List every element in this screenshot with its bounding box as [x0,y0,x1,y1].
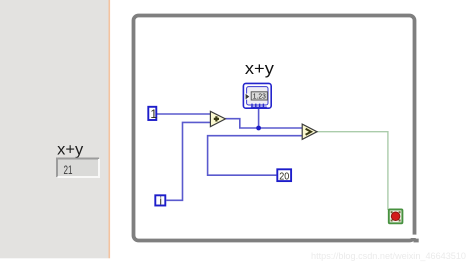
subVI left terminal notch [245,94,249,100]
subVI left terminal arrow [246,94,250,100]
indicator box top shadow [57,159,99,178]
wire: boolean green to stop terminal [317,132,388,210]
subVI display box [251,92,267,100]
panel right edge orange line [109,0,111,258]
greater-than function triangle [302,124,317,139]
numeric constant 1 [148,107,156,120]
svg-text:21: 21 [64,163,73,177]
svg-text:i: i [160,195,162,207]
stop (loop condition) terminal body [389,209,403,223]
wire: add output to greater-than top input [225,119,302,128]
while loop border [134,16,415,241]
loop border bottom-right bar end [414,239,419,243]
add plus symbol [214,116,219,121]
numeric constant 20 [277,169,291,181]
greater-than symbol [306,129,311,135]
stop terminal corner dots [391,211,393,213]
svg-text:x+y: x+y [57,141,83,158]
indicator box bottom highlight [58,159,100,177]
front panel gray background [0,0,109,258]
stop terminal red circle [391,212,400,221]
svg-text:x+y: x+y [245,59,275,78]
iteration terminal i [155,195,165,205]
svg-text:https://blog.csdn.net/weixin_4: https://blog.csdn.net/weixin_46643510 [311,251,466,262]
subVI icon outer frame [243,83,271,108]
svg-text:1: 1 [150,107,157,121]
subVI comb mark [251,104,267,108]
loop border bottom-right notch [411,235,417,238]
wire: constant 20 to greater-than bottom input [208,136,303,176]
add function triangle [210,111,225,126]
wire: iteration terminal up to add bottom input [166,122,210,200]
wire junction node [256,126,261,131]
wire: constant 1 to add top input [157,113,210,115]
wire: subVI down to junction [258,108,260,128]
subVI icon inner frame [247,87,268,105]
svg-text:20: 20 [279,171,289,183]
svg-text:1.23: 1.23 [253,94,266,101]
indicator box fill [57,159,99,178]
